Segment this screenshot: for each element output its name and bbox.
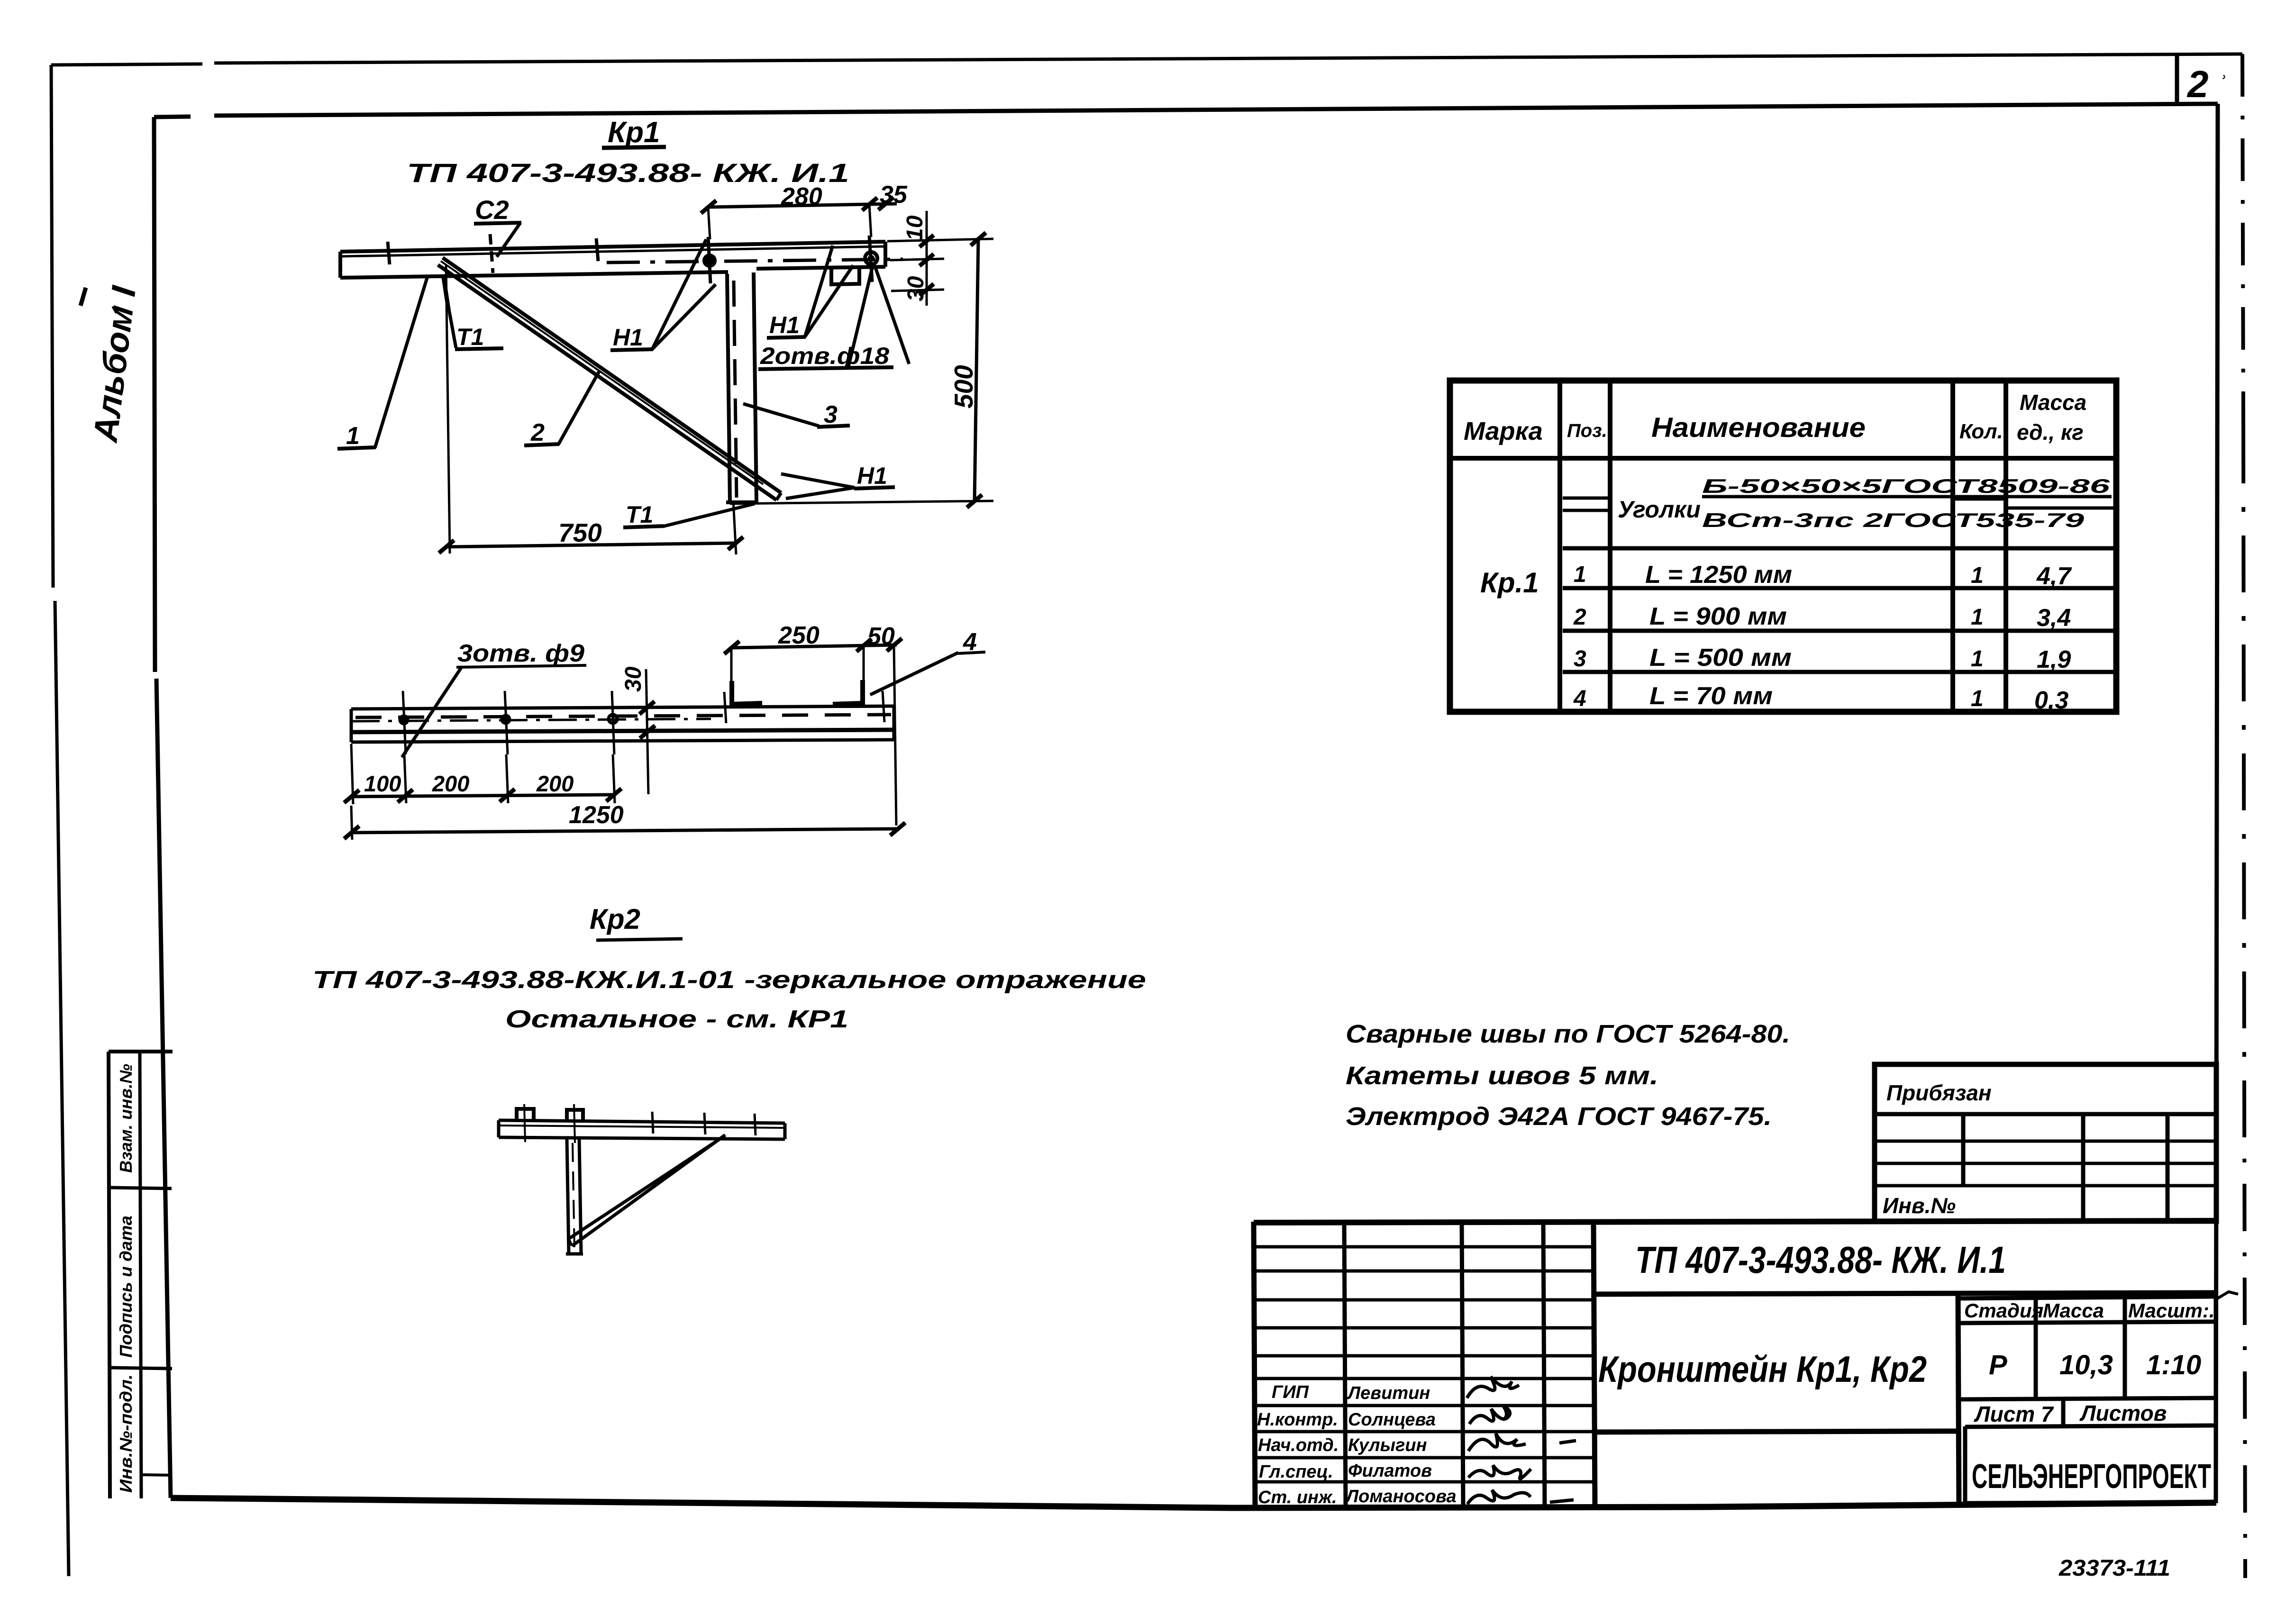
svg-text:Стадия: Стадия bbox=[1964, 1299, 2043, 1322]
svg-text:Т1: Т1 bbox=[456, 324, 484, 350]
svg-text:3: 3 bbox=[824, 401, 838, 428]
svg-text:Листов: Листов bbox=[2079, 1401, 2167, 1425]
svg-text:L = 70 мм: L = 70 мм bbox=[1649, 682, 1773, 710]
svg-text:0,3: 0,3 bbox=[2034, 687, 2068, 714]
svg-text:Электрод Э42А ГОСТ 9467-75.: Электрод Э42А ГОСТ 9467-75. bbox=[1346, 1102, 1772, 1131]
svg-text:Прибязан: Прибязан bbox=[1886, 1080, 1992, 1105]
svg-text:Р: Р bbox=[1989, 1350, 2007, 1380]
svg-text:1: 1 bbox=[346, 422, 360, 450]
svg-text:10,3: 10,3 bbox=[2059, 1350, 2113, 1380]
svg-text:1,9: 1,9 bbox=[2037, 646, 2071, 673]
svg-text:Наименование: Наименование bbox=[1651, 412, 1866, 443]
svg-text:С2: С2 bbox=[475, 195, 509, 225]
svg-text:L = 500 мм: L = 500 мм bbox=[1649, 644, 1792, 671]
svg-text:200: 200 bbox=[536, 771, 574, 796]
svg-text:Кр1: Кр1 bbox=[608, 116, 660, 149]
svg-text:СЕЛЬЭНЕРГОПРОЕКТ: СЕЛЬЭНЕРГОПРОЕКТ bbox=[1972, 1458, 2211, 1496]
svg-text:Инв.№: Инв.№ bbox=[1883, 1193, 1956, 1218]
svg-text:750: 750 bbox=[558, 518, 602, 547]
svg-text:ГИП: ГИП bbox=[1272, 1382, 1309, 1402]
svg-text:Масса: Масса bbox=[2043, 1299, 2104, 1322]
svg-text:2: 2 bbox=[530, 419, 545, 446]
svg-text:2: 2 bbox=[2186, 63, 2209, 105]
svg-text:Нач.отд.: Нач.отд. bbox=[1258, 1435, 1339, 1455]
svg-text:4,7: 4,7 bbox=[2036, 563, 2072, 590]
svg-text:ТП 407-3-493.88- КЖ. И.1: ТП 407-3-493.88- КЖ. И.1 bbox=[1635, 1239, 2006, 1281]
svg-text:Остальное - см. КР1: Остальное - см. КР1 bbox=[505, 1006, 848, 1033]
svg-text:1: 1 bbox=[1971, 646, 1984, 671]
svg-text:100: 100 bbox=[364, 771, 401, 796]
svg-text:23373-111: 23373-111 bbox=[2058, 1556, 2170, 1581]
svg-text:250: 250 bbox=[778, 622, 820, 649]
svg-text:1: 1 bbox=[1574, 562, 1586, 587]
svg-text:30: 30 bbox=[903, 276, 929, 301]
svg-text:3,4: 3,4 bbox=[2037, 604, 2071, 632]
svg-text:ед., кг: ед., кг bbox=[2017, 420, 2084, 445]
svg-text:30: 30 bbox=[621, 666, 646, 692]
svg-text:Катеты швов 5 мм.: Катеты швов 5 мм. bbox=[1346, 1061, 1658, 1090]
svg-text:1: 1 bbox=[1971, 605, 1984, 630]
svg-text:1250: 1250 bbox=[569, 801, 624, 829]
svg-text:Уголки: Уголки bbox=[1618, 496, 1701, 523]
svg-text:L = 1250 мм: L = 1250 мм bbox=[1645, 561, 1792, 589]
svg-text:L = 900 мм: L = 900 мм bbox=[1649, 603, 1787, 630]
svg-text:Н1: Н1 bbox=[857, 463, 887, 489]
svg-text:1:10: 1:10 bbox=[2146, 1350, 2201, 1380]
svg-text:35: 35 bbox=[880, 181, 908, 209]
svg-text:3: 3 bbox=[1574, 646, 1586, 671]
svg-text:Инв.№-подл.: Инв.№-подл. bbox=[116, 1374, 136, 1493]
svg-text:200: 200 bbox=[432, 771, 469, 796]
svg-text:Ломаносова: Ломаносова bbox=[1345, 1487, 1457, 1506]
svg-text:Кулыгин: Кулыгин bbox=[1348, 1435, 1427, 1455]
svg-text:Филатов: Филатов bbox=[1348, 1461, 1432, 1481]
svg-text:Поз.: Поз. bbox=[1567, 420, 1607, 441]
svg-text:500: 500 bbox=[949, 365, 978, 408]
svg-text:3отв. ф9: 3отв. ф9 bbox=[457, 640, 584, 667]
svg-text:Сварные швы по ГОСТ 5264-80.: Сварные швы по ГОСТ 5264-80. bbox=[1346, 1020, 1790, 1048]
svg-text:ʾ: ʾ bbox=[2218, 71, 2226, 98]
svg-text:4: 4 bbox=[963, 628, 977, 656]
svg-text:1: 1 bbox=[1971, 563, 1984, 588]
svg-text:Масса: Масса bbox=[2020, 390, 2086, 415]
svg-text:280: 280 bbox=[781, 183, 822, 210]
svg-text:Масшт:.: Масшт:. bbox=[2128, 1299, 2215, 1322]
svg-text:Лист 7: Лист 7 bbox=[1974, 1402, 2054, 1426]
svg-text:ВСт-3пс 2ГОСТ535-79: ВСт-3пс 2ГОСТ535-79 bbox=[1702, 509, 2085, 531]
svg-text:Н1: Н1 bbox=[613, 324, 643, 351]
svg-text:Кол.: Кол. bbox=[1959, 420, 2003, 443]
svg-text:1: 1 bbox=[1971, 686, 1984, 711]
svg-text:Солнцева: Солнцева bbox=[1348, 1410, 1436, 1430]
svg-text:Т1: Т1 bbox=[626, 501, 653, 528]
svg-text:Подпись и дата: Подпись и дата bbox=[116, 1216, 136, 1358]
svg-text:Кр2: Кр2 bbox=[590, 903, 640, 935]
svg-text:Н1: Н1 bbox=[769, 312, 800, 338]
svg-text:50: 50 bbox=[867, 623, 895, 650]
svg-text:Н.контр.: Н.контр. bbox=[1257, 1410, 1338, 1430]
svg-text:2отв.ф18: 2отв.ф18 bbox=[760, 343, 889, 369]
svg-text:Гл.спец.: Гл.спец. bbox=[1259, 1462, 1333, 1482]
svg-text:Б-50×50×5ГОСТ8509-86: Б-50×50×5ГОСТ8509-86 bbox=[1702, 475, 2110, 497]
svg-text:Марка: Марка bbox=[1464, 417, 1543, 445]
svg-text:2: 2 bbox=[1573, 605, 1586, 630]
svg-text:Кронштейн Кр1, Кр2: Кронштейн Кр1, Кр2 bbox=[1598, 1348, 1927, 1390]
svg-text:ТП 407-3-493.88-КЖ.И.1-01 -зер: ТП 407-3-493.88-КЖ.И.1-01 -зеркальное от… bbox=[312, 966, 1146, 994]
svg-text:4: 4 bbox=[1573, 686, 1586, 711]
svg-text:Ст. инж.: Ст. инж. bbox=[1258, 1488, 1337, 1507]
svg-text:Взам. инв.№: Взам. инв.№ bbox=[116, 1064, 136, 1173]
svg-text:10: 10 bbox=[902, 215, 928, 241]
svg-text:Кр.1: Кр.1 bbox=[1480, 567, 1539, 599]
svg-text:Левитин: Левитин bbox=[1347, 1383, 1430, 1403]
